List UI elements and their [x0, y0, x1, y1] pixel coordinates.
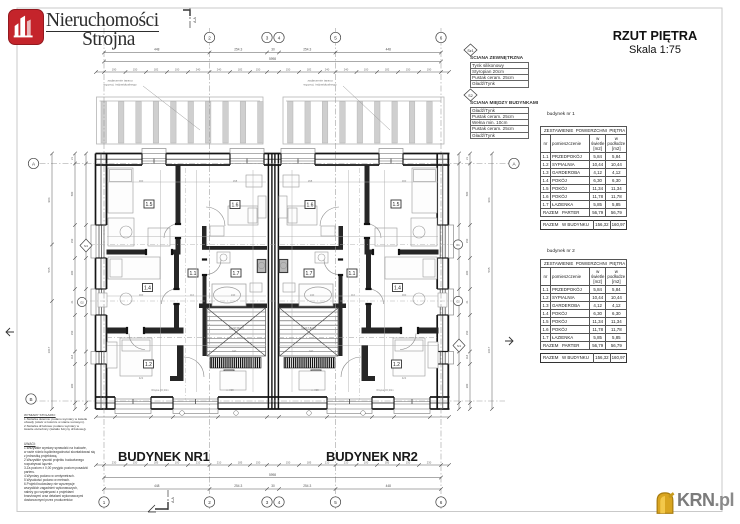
- svg-text:182: 182: [385, 67, 390, 71]
- note zadaszenie tarasu left: [103, 79, 200, 131]
- svg-text:240: 240: [232, 349, 237, 353]
- svg-text:110: 110: [190, 293, 195, 297]
- svg-text:5: 5: [334, 500, 337, 505]
- terrace furniture room 1.3: [220, 371, 246, 390]
- building outline group: [91, 149, 454, 414]
- svg-text:1.4: 1.4: [394, 286, 401, 292]
- svg-text:11x(17,8x27): 11x(17,8x27): [229, 326, 244, 330]
- balcony grate NR2: [284, 358, 335, 369]
- svg-text:21: 21: [465, 300, 469, 303]
- right axis circles: [509, 158, 519, 168]
- svg-text:Wnęka ±0,30m: Wnęka ±0,30m: [376, 388, 393, 392]
- svg-text:3: 3: [266, 35, 269, 40]
- svg-text:904: 904: [487, 197, 491, 202]
- interior walls building NR2: [278, 165, 439, 381]
- svg-text:6: 6: [440, 35, 443, 40]
- svg-text:5998: 5998: [269, 473, 276, 477]
- small circles below bottom wall: [180, 411, 185, 416]
- svg-text:100: 100: [364, 67, 369, 71]
- top dimension rows: [94, 48, 451, 74]
- section mark A-A bottom: [148, 490, 175, 512]
- svg-text:1.7: 1.7: [233, 271, 240, 277]
- KRN.pl watermark: [653, 485, 740, 517]
- svg-text:150: 150: [286, 460, 291, 464]
- horizontal axis lines: [28, 163, 516, 165]
- svg-text:150: 150: [256, 460, 261, 464]
- svg-text:Wnęka ±0,30m: Wnęka ±0,30m: [151, 388, 168, 392]
- right wall type marker: [453, 339, 465, 352]
- company logo red square: [8, 9, 44, 45]
- svg-text:n. #98: n. #98: [311, 388, 319, 392]
- label BUDYNEK NR1: [118, 449, 210, 464]
- right dimension columns: [457, 152, 494, 411]
- outer wall top: [96, 153, 143, 155]
- svg-text:1.6: 1.6: [307, 203, 314, 209]
- svg-text:300: 300: [402, 293, 407, 297]
- svg-text:1.7: 1.7: [306, 271, 313, 277]
- svg-text:21: 21: [70, 300, 74, 303]
- svg-text:21: 21: [465, 157, 469, 160]
- svg-text:182: 182: [238, 67, 243, 71]
- svg-text:1017: 1017: [487, 346, 491, 353]
- svg-text:5998: 5998: [269, 57, 276, 61]
- area table budynek nr 2: [540, 249, 627, 363]
- svg-text:150: 150: [256, 67, 261, 71]
- door jamb caps NR1+NR2: [126, 223, 419, 334]
- roof hatch right: [283, 97, 444, 144]
- svg-text:182: 182: [154, 67, 159, 71]
- svg-text:280: 280: [70, 270, 74, 275]
- dim row below bottom wall: [96, 416, 449, 418]
- roof hatch left: [97, 97, 264, 144]
- left wall type markers: [80, 239, 92, 252]
- svg-text:wg proj. indywidualnego: wg proj. indywidualnego: [303, 83, 336, 87]
- svg-text:150: 150: [70, 238, 74, 243]
- room labels NR1: [143, 200, 242, 378]
- left axis circles: [28, 158, 38, 168]
- svg-text:Sz1: Sz1: [457, 345, 462, 348]
- bottom axis circles: [99, 497, 446, 507]
- svg-text:2: 2: [208, 35, 211, 40]
- horizontal axis B dashed: [28, 400, 505, 402]
- svg-text:240: 240: [309, 349, 314, 353]
- svg-text:240: 240: [344, 67, 349, 71]
- svg-text:30: 30: [271, 484, 275, 488]
- svg-text:190: 190: [427, 67, 432, 71]
- hallway axis dashed NR1/NR2: [185, 168, 187, 400]
- windows on top wall: [142, 149, 166, 154]
- note zadaszenie tarasu right: [303, 79, 390, 131]
- svg-text:1017: 1017: [47, 346, 51, 353]
- svg-text:Sz1: Sz1: [84, 245, 89, 248]
- svg-text:11x(17,8x27): 11x(17,8x27): [301, 326, 316, 330]
- area table budynek nr 1: [540, 112, 627, 230]
- section mark A-A top: [183, 8, 197, 30]
- svg-text:448: 448: [386, 48, 392, 52]
- interior dimension texts: [139, 179, 407, 392]
- svg-text:300: 300: [139, 179, 144, 183]
- svg-text:110: 110: [351, 293, 356, 297]
- svg-text:448: 448: [154, 484, 160, 488]
- legend wall type S2: [463, 88, 529, 139]
- svg-text:150: 150: [465, 238, 469, 243]
- room labels NR2: [304, 200, 403, 378]
- door swing arcs NR2: [320, 207, 416, 377]
- middle wall between buildings: [267, 154, 269, 410]
- svg-text:240: 240: [196, 67, 201, 71]
- vertical axis lines: [103, 28, 105, 510]
- svg-text:O1: O1: [456, 243, 460, 247]
- svg-text:O2: O2: [80, 301, 84, 305]
- balcony grate NR1: [210, 358, 261, 369]
- windows/balcony doors on bottom wall: [115, 409, 151, 414]
- svg-text:118: 118: [465, 354, 469, 359]
- svg-text:wg proj. indywidualnego: wg proj. indywidualnego: [103, 83, 136, 87]
- left dimension columns: [47, 152, 88, 411]
- svg-text:300: 300: [139, 293, 144, 297]
- windows on left wall: [91, 225, 96, 258]
- svg-text:254.3: 254.3: [303, 484, 311, 488]
- svg-text:1.1: 1.1: [349, 271, 356, 277]
- svg-text:565: 565: [487, 267, 491, 272]
- svg-text:254.3: 254.3: [303, 48, 311, 52]
- notes WYMIARY STOLARKI: [24, 414, 116, 432]
- section mark B-B left: [6, 328, 14, 336]
- outer wall bottom: [96, 396, 116, 398]
- svg-text:A-A: A-A: [193, 16, 197, 22]
- notes UWAGI: [24, 442, 116, 502]
- svg-text:448: 448: [386, 484, 392, 488]
- svg-text:1.2: 1.2: [145, 362, 152, 368]
- furniture building NR1: [98, 168, 266, 376]
- svg-text:2: 2: [208, 500, 211, 505]
- stairs building NR1: [207, 308, 266, 356]
- svg-text:30: 30: [271, 48, 275, 52]
- svg-text:21: 21: [70, 157, 74, 160]
- svg-text:565: 565: [47, 267, 51, 272]
- bottom dimension rows: [94, 460, 451, 491]
- svg-text:4: 4: [278, 500, 281, 505]
- svg-text:150: 150: [406, 67, 411, 71]
- svg-text:185: 185: [238, 460, 243, 464]
- svg-text:422: 422: [139, 376, 144, 380]
- svg-text:150: 150: [70, 330, 74, 335]
- interior walls building NR1: [107, 165, 268, 381]
- svg-text:3: 3: [266, 500, 269, 505]
- svg-text:B: B: [29, 397, 32, 402]
- legend wall type Sz1: [463, 43, 529, 88]
- svg-text:n. #98: n. #98: [226, 388, 234, 392]
- roof overhang dashed line: [107, 337, 266, 339]
- svg-text:580: 580: [70, 191, 74, 196]
- label BUDYNEK NR2: [326, 449, 418, 464]
- top axis circles: [204, 32, 446, 42]
- svg-text:904: 904: [47, 197, 51, 202]
- svg-text:1.4: 1.4: [144, 286, 151, 292]
- svg-text:240: 240: [231, 293, 236, 297]
- svg-text:240: 240: [310, 293, 315, 297]
- svg-text:1.5: 1.5: [393, 202, 400, 208]
- svg-text:240: 240: [325, 67, 330, 71]
- svg-text:190: 190: [112, 67, 117, 71]
- door swing arcs NR1: [129, 207, 225, 377]
- svg-text:380: 380: [70, 383, 74, 388]
- svg-text:1.1: 1.1: [190, 271, 197, 277]
- outer wall left: [95, 154, 97, 226]
- svg-text:1.6: 1.6: [232, 203, 239, 209]
- svg-text:210: 210: [217, 460, 222, 464]
- svg-text:182: 182: [307, 67, 312, 71]
- furniture building NR2: [279, 168, 447, 376]
- svg-text:268: 268: [308, 179, 313, 183]
- svg-text:5: 5: [334, 35, 337, 40]
- svg-text:268: 268: [233, 179, 238, 183]
- svg-text:118: 118: [70, 354, 74, 359]
- svg-text:4: 4: [278, 35, 281, 40]
- svg-text:150: 150: [465, 330, 469, 335]
- title RZUT PIETRA: [575, 28, 735, 56]
- interior dimension chains: [107, 182, 438, 346]
- stairs building NR2: [280, 308, 339, 356]
- svg-text:S2: S2: [468, 94, 472, 98]
- svg-text:254.3: 254.3: [234, 48, 242, 52]
- company logo text: [46, 11, 171, 47]
- outer wall right: [436, 154, 438, 226]
- svg-text:422: 422: [402, 376, 407, 380]
- pilaster blocks: [107, 344, 110, 352]
- svg-text:100: 100: [175, 67, 180, 71]
- section mark B-B right: [505, 337, 513, 345]
- svg-text:1.2: 1.2: [393, 362, 400, 368]
- interior vertical dim chains: [161, 170, 385, 392]
- svg-text:300: 300: [402, 179, 407, 183]
- svg-text:580: 580: [465, 191, 469, 196]
- svg-text:1.5: 1.5: [146, 202, 153, 208]
- svg-text:280: 280: [465, 270, 469, 275]
- svg-text:150: 150: [286, 67, 291, 71]
- svg-text:Sz1: Sz1: [467, 49, 473, 53]
- svg-text:6: 6: [440, 500, 443, 505]
- svg-text:185: 185: [307, 460, 312, 464]
- svg-text:240: 240: [217, 67, 222, 71]
- svg-text:254.3: 254.3: [234, 484, 242, 488]
- svg-text:380: 380: [465, 383, 469, 388]
- windows on right wall: [449, 225, 454, 258]
- svg-text:O2: O2: [456, 300, 460, 304]
- svg-text:448: 448: [154, 48, 160, 52]
- svg-text:A-A: A-A: [171, 496, 175, 502]
- svg-text:230: 230: [427, 460, 432, 464]
- svg-text:150: 150: [133, 67, 138, 71]
